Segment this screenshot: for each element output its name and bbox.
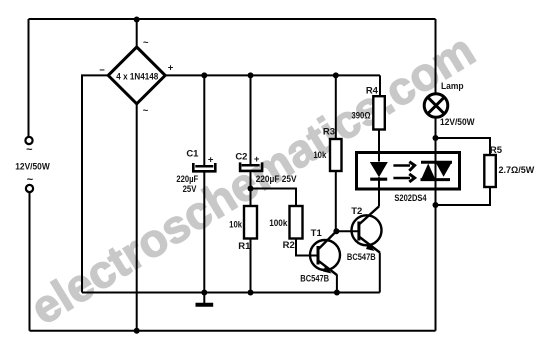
svg-text:10k: 10k — [313, 150, 326, 161]
wire ground rail (minus) — [82, 292, 380, 294]
wire bottom rail — [30, 330, 436, 332]
wire lamp to triac / bottom — [435, 117, 437, 330]
wire plus rail — [165, 74, 380, 76]
svg-text:~: ~ — [143, 38, 149, 49]
svg-text:Lamp: Lamp — [441, 81, 464, 92]
wire R4 bottom lead to LED — [378, 130, 380, 162]
wire R5 top lead — [436, 138, 491, 155]
capacitor C1 220uF 25V — [176, 148, 215, 195]
wire C1 bottom lead — [203, 171, 205, 292]
wire R3 top lead — [335, 75, 337, 139]
opto coupling arrows — [393, 162, 414, 182]
node junction bottom rail / bridge — [134, 328, 140, 334]
ground symbol — [196, 293, 214, 305]
resistor R5 2.7ohm 5W — [484, 145, 534, 187]
svg-text:100k: 100k — [269, 218, 288, 229]
node junction triac / R5 bottom — [433, 202, 439, 208]
wire R2 bottom lead to T1 base — [296, 239, 318, 256]
node junction R3 / T1 collector / T2 base — [333, 228, 339, 234]
wire bridge AC bottom lead to bottom rail — [136, 104, 138, 331]
resistor R1 10k — [229, 206, 257, 252]
resistor R4 390ohm — [351, 85, 384, 129]
svg-text:~: ~ — [26, 144, 33, 156]
svg-text:T1: T1 — [311, 228, 323, 239]
transistor T1 BC547B — [300, 228, 340, 285]
lamp 12V/50W — [424, 81, 474, 128]
svg-text:R2: R2 — [283, 240, 295, 251]
svg-text:R4: R4 — [366, 85, 379, 96]
svg-text:C2: C2 — [235, 152, 247, 163]
svg-text:R5: R5 — [490, 145, 503, 156]
node junction lamp / R5 top — [433, 135, 439, 141]
svg-text:T2: T2 — [351, 206, 362, 217]
resistor R2 100k — [269, 206, 302, 251]
wire R5 bottom lead — [436, 187, 491, 205]
terminal input 1 — [25, 137, 32, 144]
LED inside opto — [370, 162, 388, 190]
svg-text:BC547B: BC547B — [300, 273, 329, 284]
svg-text:C1: C1 — [186, 148, 199, 159]
label source 12V/50W — [15, 144, 50, 186]
wire C1 top lead — [203, 75, 205, 166]
wire bridge AC top lead — [136, 19, 138, 48]
wire R3 bottom lead — [335, 171, 337, 231]
node junction C2 / R1 / R2 — [248, 186, 254, 192]
triac inside opto — [421, 162, 453, 181]
wire terminal 2 to bottom rail — [29, 193, 31, 331]
node junction ground rail / R1 — [248, 290, 254, 296]
svg-text:12V/50W: 12V/50W — [440, 117, 475, 128]
opto-triac U1 S202DS4 box — [357, 153, 460, 205]
wire branch to R2 — [251, 189, 297, 207]
svg-text:+: + — [208, 155, 214, 166]
svg-text:+: + — [254, 154, 260, 165]
wire C2 bottom lead — [250, 171, 252, 206]
node junction plus rail / C2 — [248, 72, 254, 78]
node junction ground rail / T1 emitter — [334, 290, 340, 296]
svg-text:R1: R1 — [238, 241, 251, 252]
svg-text:390Ω: 390Ω — [351, 111, 370, 122]
svg-text:BC547B: BC547B — [347, 252, 376, 263]
svg-text:R3: R3 — [323, 126, 335, 137]
wire R1 bottom lead — [250, 239, 252, 293]
node junction ground rail / C1 — [201, 290, 207, 296]
svg-text:~: ~ — [27, 174, 34, 186]
svg-text:2.7Ω/5W: 2.7Ω/5W — [499, 165, 535, 176]
wire T1 emitter lead — [336, 275, 338, 293]
wire C2 top lead — [250, 75, 252, 165]
node junction plus rail / R3 — [333, 72, 339, 78]
svg-text:4 x 1N4148: 4 x 1N4148 — [116, 72, 158, 83]
wire left input drop to terminal 1 — [28, 19, 30, 137]
node junction plus rail / C1 — [201, 72, 207, 78]
terminal input 2 — [26, 185, 33, 192]
wire R4 top lead — [379, 75, 381, 96]
node junction top rail / bridge — [134, 17, 140, 23]
wire top rail from input to lamp — [29, 18, 436, 20]
wire T2 emitter lead — [379, 253, 381, 293]
transistor T2 BC547B — [347, 206, 382, 263]
svg-text:25V: 25V — [183, 184, 197, 195]
svg-text:S202DS4: S202DS4 — [394, 193, 427, 204]
wire T2 base lead — [336, 230, 359, 232]
wire T2 collector lead — [378, 190, 380, 207]
bridge rectifier 4 x 1N4148 — [99, 38, 174, 117]
wire bridge minus lead — [82, 75, 108, 292]
svg-text:+: + — [168, 63, 174, 74]
svg-text:220µF 25V: 220µF 25V — [256, 174, 297, 185]
capacitor C2 220uF 25V — [235, 152, 297, 186]
svg-text:~: ~ — [143, 106, 149, 117]
watermark electroschematics.com — [21, 24, 483, 335]
resistor R3 10k — [313, 126, 341, 171]
svg-text:12V/50W: 12V/50W — [15, 161, 50, 172]
svg-text:10k: 10k — [229, 219, 242, 230]
svg-text:−: − — [99, 65, 105, 76]
wire lamp top drop — [435, 19, 437, 94]
